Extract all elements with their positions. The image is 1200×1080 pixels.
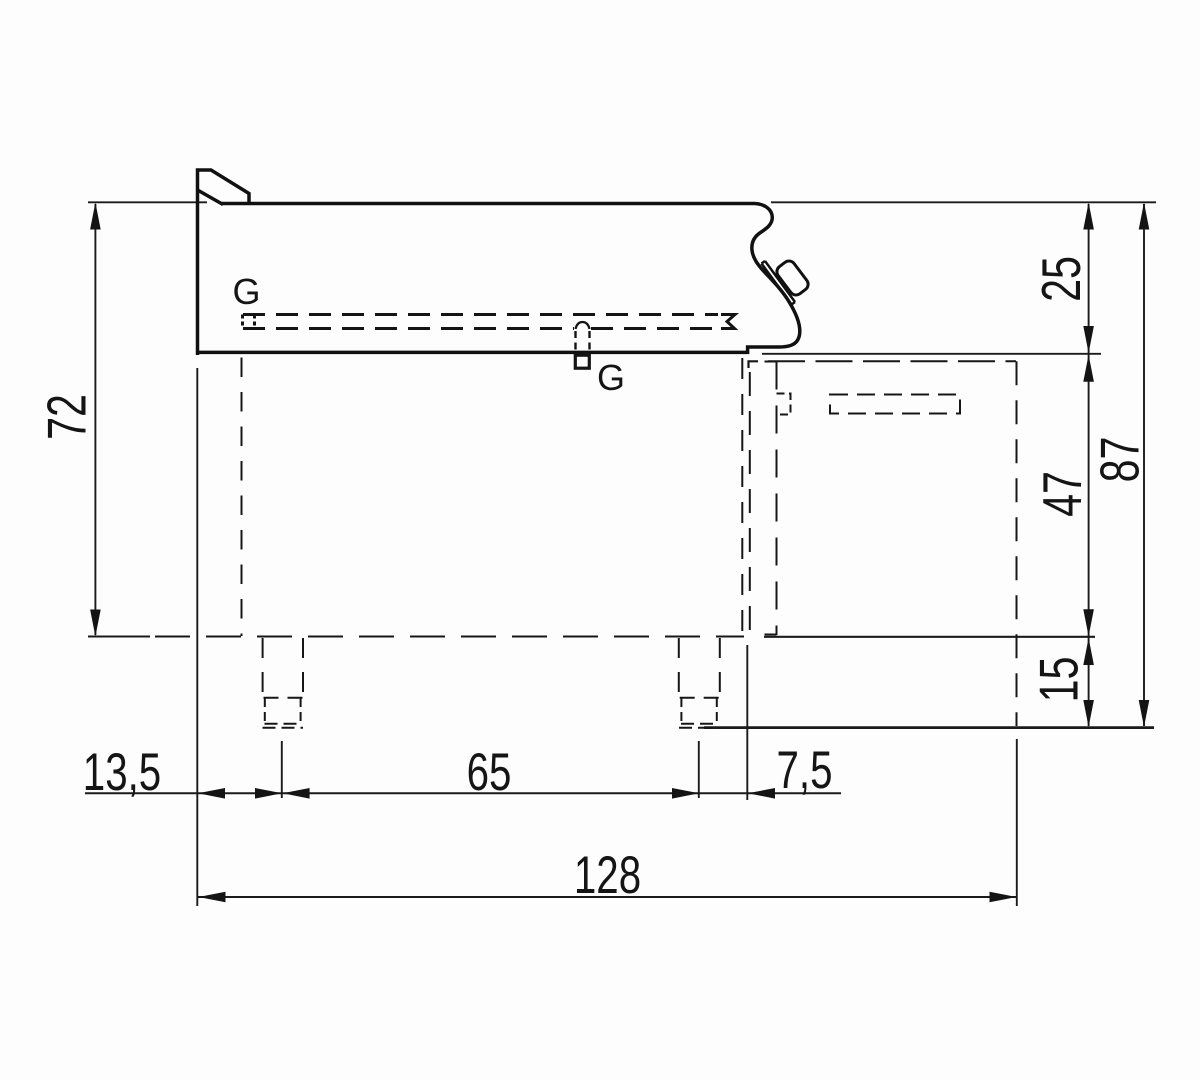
svg-text:65: 65: [467, 742, 512, 802]
svg-text:G: G: [597, 357, 625, 398]
svg-text:7,5: 7,5: [777, 740, 833, 800]
svg-text:128: 128: [574, 845, 641, 905]
svg-text:G: G: [232, 271, 260, 312]
svg-text:15: 15: [1029, 657, 1090, 703]
svg-text:72: 72: [37, 394, 98, 440]
svg-text:87: 87: [1090, 437, 1151, 483]
svg-text:13,5: 13,5: [83, 742, 161, 802]
svg-text:25: 25: [1032, 256, 1093, 302]
svg-text:47: 47: [1033, 471, 1094, 517]
